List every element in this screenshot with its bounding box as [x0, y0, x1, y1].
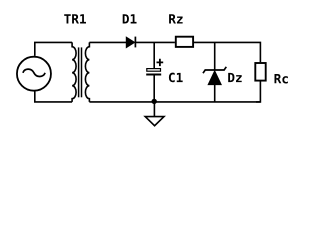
wire Rz right to Rc corner [194, 42, 260, 62]
AC source [17, 57, 51, 91]
wire C1 branch top [153, 42, 155, 68]
label Rc [275, 74, 288, 83]
label TR1 [64, 14, 86, 23]
capacitor C1 [146, 59, 163, 76]
wire Dz bottom [214, 85, 216, 102]
ground [145, 117, 164, 126]
junction dot [152, 99, 157, 104]
label C1 [169, 73, 183, 83]
wire primary bottom (source to TR1) [35, 92, 72, 102]
wire Rc bottom [256, 82, 260, 102]
wire bottom rail [89, 101, 260, 103]
resistor Rz [176, 37, 193, 47]
wire Dz branch top [214, 42, 216, 70]
transformer TR1 core [79, 47, 82, 97]
wire ground stub [153, 102, 155, 117]
wire secondary top lead to D1 anode [89, 41, 126, 43]
wire D1 cathode to Rz left [135, 41, 175, 43]
label Dz [228, 73, 241, 82]
label Rz [169, 14, 183, 23]
wire primary top (source to TR1) [35, 42, 72, 56]
transformer TR1 secondary winding [85, 42, 89, 102]
wire C1 bottom [153, 76, 155, 102]
label D1 [123, 14, 137, 23]
zener diode Dz [203, 67, 226, 85]
transformer TR1 primary winding [72, 42, 76, 102]
diode D1 [126, 37, 135, 48]
resistor Rc [255, 63, 265, 81]
